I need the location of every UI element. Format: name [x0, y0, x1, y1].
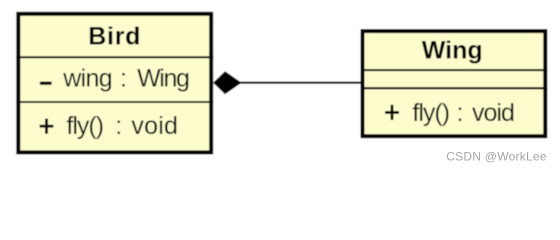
class Bird attribute/method separator: [16, 101, 213, 103]
class Bird attribute visibility dash: [40, 82, 52, 85]
class Wing attribute/method separator: [361, 87, 548, 89]
class Wing title separator: [361, 69, 548, 71]
svg-text:CSDN @WorkLee: CSDN @WorkLee: [446, 149, 547, 163]
association wire: [238, 82, 362, 84]
svg-text:Bird: Bird: [88, 23, 141, 51]
svg-text:fly():void: fly():void: [412, 99, 514, 127]
svg-text:Wing: Wing: [422, 37, 483, 65]
svg-text:fly():void: fly():void: [66, 112, 178, 140]
class Bird title separator: [16, 56, 213, 58]
class Bird box: [18, 14, 211, 153]
class Wing box: [363, 31, 546, 136]
svg-text:wing:Wing: wing:Wing: [62, 64, 189, 92]
class Bird method plus sign: [40, 119, 54, 134]
composition diamond: [213, 71, 241, 94]
class Wing method plus sign: [385, 105, 399, 120]
